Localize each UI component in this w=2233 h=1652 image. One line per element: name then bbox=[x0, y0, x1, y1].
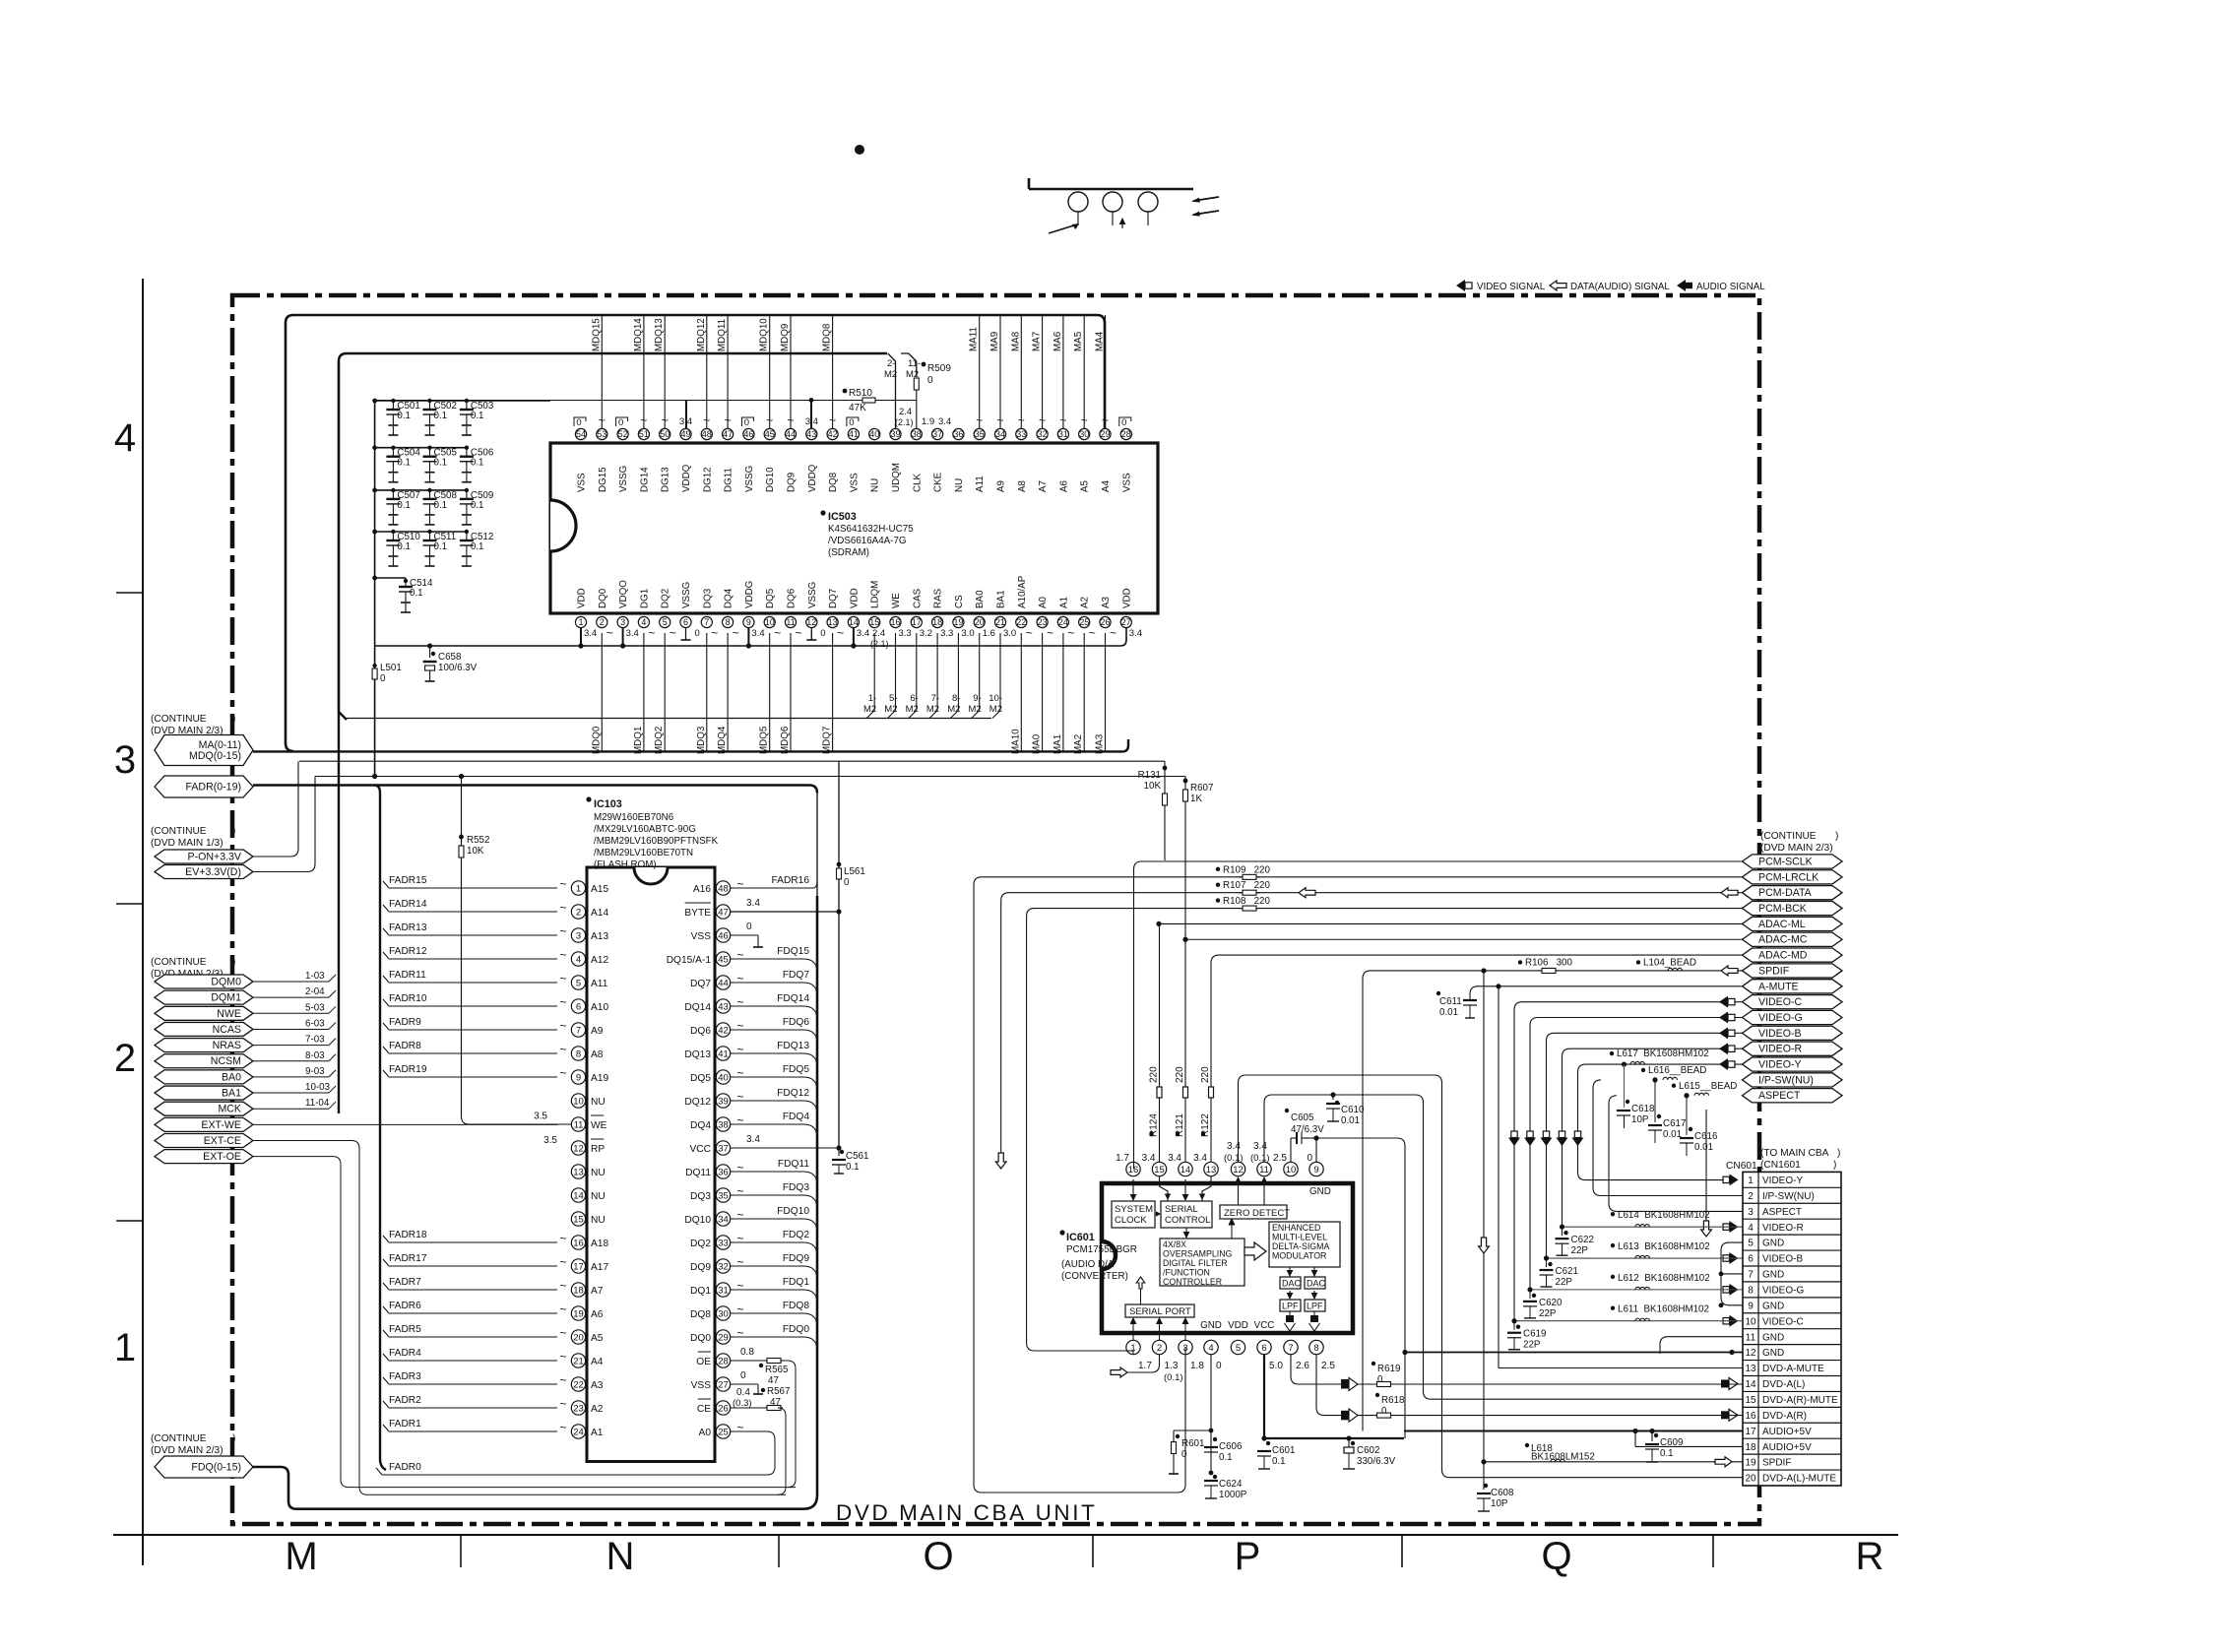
svg-text:MDQ0: MDQ0 bbox=[591, 726, 602, 754]
svg-text:4: 4 bbox=[1208, 1343, 1213, 1354]
svg-text:6: 6 bbox=[576, 1001, 581, 1012]
svg-text:3.4: 3.4 bbox=[584, 628, 597, 639]
svg-text:GND: GND bbox=[1762, 1270, 1784, 1281]
svg-text:IC601: IC601 bbox=[1066, 1232, 1095, 1243]
svg-text:4: 4 bbox=[576, 954, 581, 965]
svg-text:8: 8 bbox=[1313, 1343, 1318, 1354]
svg-text:39: 39 bbox=[718, 1096, 729, 1107]
svg-text:2.4: 2.4 bbox=[899, 407, 912, 417]
svg-text:0.1: 0.1 bbox=[471, 541, 484, 552]
svg-text:45: 45 bbox=[765, 429, 775, 439]
svg-text:43: 43 bbox=[806, 429, 816, 439]
svg-text:18: 18 bbox=[932, 617, 942, 627]
svg-text:GND: GND bbox=[1762, 1301, 1784, 1311]
svg-text:7-03: 7-03 bbox=[305, 1035, 325, 1046]
svg-text:DQ5: DQ5 bbox=[690, 1073, 711, 1084]
svg-text:DQ9: DQ9 bbox=[787, 473, 797, 492]
svg-text:2-: 2- bbox=[887, 358, 895, 369]
svg-text:(TO MAIN CBA: (TO MAIN CBA bbox=[1760, 1148, 1829, 1159]
svg-text:MA2: MA2 bbox=[1073, 734, 1084, 754]
svg-text:IC103: IC103 bbox=[594, 798, 622, 810]
svg-text:): ) bbox=[1833, 1160, 1836, 1171]
svg-text:~: ~ bbox=[1047, 626, 1053, 640]
svg-text:VSSG: VSSG bbox=[618, 466, 629, 492]
svg-text:22P: 22P bbox=[1539, 1308, 1557, 1319]
svg-text:A16: A16 bbox=[693, 884, 711, 895]
svg-text:3.5: 3.5 bbox=[534, 1111, 547, 1121]
svg-text:DG10: DG10 bbox=[765, 467, 776, 492]
svg-text:OVERSAMPLING: OVERSAMPLING bbox=[1163, 1249, 1233, 1259]
svg-text:0.01: 0.01 bbox=[1663, 1129, 1682, 1140]
svg-text:VSS: VSS bbox=[1121, 473, 1132, 492]
svg-text:AUDIO+5V: AUDIO+5V bbox=[1762, 1427, 1812, 1437]
svg-text:~: ~ bbox=[736, 1161, 743, 1175]
svg-text:VDD: VDD bbox=[1121, 588, 1132, 608]
svg-text:A3: A3 bbox=[1101, 596, 1112, 608]
svg-text:FADR6: FADR6 bbox=[389, 1301, 421, 1311]
svg-text:30: 30 bbox=[1079, 429, 1089, 439]
svg-text:VCC: VCC bbox=[689, 1144, 711, 1155]
svg-text:DQ6: DQ6 bbox=[690, 1026, 711, 1037]
svg-text:~: ~ bbox=[559, 901, 566, 915]
svg-text:VIDEO-G: VIDEO-G bbox=[1758, 1012, 1803, 1024]
svg-text:ADAC-MC: ADAC-MC bbox=[1758, 934, 1808, 946]
svg-text:MA6: MA6 bbox=[1053, 331, 1063, 351]
svg-text:FADR7: FADR7 bbox=[389, 1277, 421, 1288]
svg-text:VDD: VDD bbox=[849, 588, 860, 608]
svg-text:0.1: 0.1 bbox=[434, 500, 448, 511]
svg-text:~: ~ bbox=[559, 1232, 566, 1245]
svg-text:16: 16 bbox=[573, 1238, 584, 1248]
svg-text:18: 18 bbox=[1745, 1442, 1756, 1453]
svg-text:FADR3: FADR3 bbox=[389, 1371, 421, 1382]
svg-text:MDQ6: MDQ6 bbox=[780, 726, 791, 754]
svg-text:A2: A2 bbox=[591, 1404, 604, 1415]
svg-text:4: 4 bbox=[1748, 1223, 1754, 1234]
svg-text:FDQ(0-15): FDQ(0-15) bbox=[191, 1461, 241, 1473]
svg-text:4: 4 bbox=[114, 416, 136, 460]
svg-text:22P: 22P bbox=[1571, 1245, 1589, 1256]
svg-text:MA1: MA1 bbox=[1053, 734, 1063, 754]
svg-text:(SDRAM): (SDRAM) bbox=[828, 547, 869, 558]
svg-text:DQ12: DQ12 bbox=[684, 1097, 711, 1108]
svg-text:C620: C620 bbox=[1539, 1298, 1563, 1308]
svg-text:DQ14: DQ14 bbox=[684, 1002, 711, 1013]
svg-text:A10/AP: A10/AP bbox=[1017, 575, 1028, 608]
svg-text:DVD MAIN CBA UNIT: DVD MAIN CBA UNIT bbox=[836, 1500, 1097, 1525]
svg-text:FADR5: FADR5 bbox=[389, 1324, 421, 1335]
svg-text:DQ15/A-1: DQ15/A-1 bbox=[667, 955, 712, 966]
svg-text:(AUDIO D/A: (AUDIO D/A bbox=[1061, 1259, 1115, 1270]
svg-text:CLK: CLK bbox=[912, 473, 923, 492]
svg-text:R: R bbox=[1856, 1535, 1884, 1578]
svg-text:16: 16 bbox=[1128, 1165, 1139, 1175]
svg-text:EXT-CE: EXT-CE bbox=[204, 1135, 241, 1147]
svg-text:DQ0: DQ0 bbox=[690, 1333, 711, 1344]
svg-text:PCM-BCK: PCM-BCK bbox=[1758, 903, 1807, 915]
svg-text:11: 11 bbox=[786, 617, 795, 627]
svg-text:VIDEO SIGNAL: VIDEO SIGNAL bbox=[1477, 282, 1546, 292]
svg-text:50: 50 bbox=[660, 429, 670, 439]
svg-text:37: 37 bbox=[718, 1143, 729, 1154]
svg-text:21: 21 bbox=[995, 617, 1005, 627]
svg-text:A8: A8 bbox=[1017, 479, 1028, 492]
svg-text:~: ~ bbox=[559, 1255, 566, 1269]
svg-text:ADAC-MD: ADAC-MD bbox=[1758, 950, 1808, 962]
svg-text:(CN1601: (CN1601 bbox=[1760, 1160, 1801, 1171]
svg-text:29: 29 bbox=[718, 1332, 729, 1343]
svg-text:C606: C606 bbox=[1219, 1441, 1243, 1452]
svg-text:(CONTINUE: (CONTINUE bbox=[151, 1433, 207, 1444]
svg-text:9: 9 bbox=[1748, 1301, 1754, 1311]
svg-text:5-: 5- bbox=[889, 693, 897, 704]
svg-text:VSS: VSS bbox=[691, 931, 712, 942]
svg-text:~: ~ bbox=[736, 972, 743, 985]
svg-text:DQM1: DQM1 bbox=[211, 992, 241, 1004]
svg-text:36: 36 bbox=[718, 1167, 729, 1177]
svg-text:R567: R567 bbox=[767, 1386, 790, 1397]
svg-text:3.4: 3.4 bbox=[746, 1134, 760, 1145]
svg-text:R107 220: R107 220 bbox=[1223, 880, 1270, 891]
svg-text:46: 46 bbox=[743, 429, 753, 439]
svg-text:CAS: CAS bbox=[912, 588, 923, 608]
svg-text:VSSG: VSSG bbox=[744, 466, 755, 492]
svg-text:9: 9 bbox=[576, 1072, 581, 1083]
svg-text:0.1: 0.1 bbox=[471, 500, 484, 511]
svg-text:0.01: 0.01 bbox=[1694, 1142, 1713, 1153]
svg-text:12: 12 bbox=[806, 617, 816, 627]
svg-text:FADR(0-19): FADR(0-19) bbox=[185, 781, 241, 793]
svg-text:GND: GND bbox=[1762, 1348, 1784, 1359]
svg-text:EXT-OE: EXT-OE bbox=[203, 1151, 241, 1163]
svg-text:0: 0 bbox=[844, 877, 850, 888]
svg-text:FDQ10: FDQ10 bbox=[777, 1206, 809, 1217]
svg-text:/MX29LV160ABTC-90G: /MX29LV160ABTC-90G bbox=[594, 824, 696, 835]
svg-text:M2: M2 bbox=[884, 369, 897, 380]
svg-text:/FUNCTION: /FUNCTION bbox=[1163, 1268, 1210, 1278]
svg-text:M2: M2 bbox=[989, 704, 1002, 715]
svg-text:10-: 10- bbox=[989, 693, 1002, 704]
svg-text:0: 0 bbox=[849, 417, 854, 428]
svg-text:L613 BK1608HM102: L613 BK1608HM102 bbox=[1618, 1241, 1710, 1252]
svg-text:NU: NU bbox=[591, 1191, 606, 1202]
svg-text:6: 6 bbox=[1261, 1343, 1266, 1354]
svg-text:2: 2 bbox=[114, 1037, 136, 1080]
svg-text:10: 10 bbox=[1286, 1165, 1297, 1175]
svg-text:VIDEO-B: VIDEO-B bbox=[1762, 1254, 1803, 1265]
svg-text:NCAS: NCAS bbox=[213, 1024, 241, 1036]
svg-text:1: 1 bbox=[1748, 1175, 1754, 1186]
svg-text:NU: NU bbox=[870, 478, 881, 492]
svg-text:SYSTEM: SYSTEM bbox=[1115, 1204, 1153, 1215]
svg-text:BA0: BA0 bbox=[975, 590, 986, 608]
svg-text:10P: 10P bbox=[1491, 1498, 1508, 1509]
svg-text:R618: R618 bbox=[1381, 1395, 1405, 1406]
svg-text:ADAC-ML: ADAC-ML bbox=[1758, 919, 1806, 930]
svg-text:VDDQ: VDDQ bbox=[681, 464, 692, 492]
svg-text:FDQ9: FDQ9 bbox=[783, 1253, 810, 1264]
svg-text:FADR9: FADR9 bbox=[389, 1017, 421, 1028]
svg-text:27: 27 bbox=[1121, 617, 1131, 627]
svg-text:0: 0 bbox=[380, 673, 386, 684]
svg-text:(CONVERTER): (CONVERTER) bbox=[1061, 1271, 1128, 1282]
svg-text:220: 220 bbox=[1200, 1066, 1211, 1083]
svg-text:EV+3.3V(D): EV+3.3V(D) bbox=[185, 866, 241, 878]
svg-text:M2: M2 bbox=[863, 704, 876, 715]
svg-text:3: 3 bbox=[620, 617, 625, 627]
svg-text:DQ10: DQ10 bbox=[684, 1215, 711, 1226]
svg-text:): ) bbox=[1837, 1148, 1840, 1159]
svg-text:5: 5 bbox=[1236, 1343, 1241, 1354]
svg-text:A1: A1 bbox=[591, 1428, 604, 1438]
svg-text:3.3: 3.3 bbox=[899, 628, 912, 639]
svg-text:10K: 10K bbox=[1144, 781, 1162, 792]
svg-text:SERIAL PORT: SERIAL PORT bbox=[1129, 1306, 1191, 1317]
svg-text:DVD-A(R): DVD-A(R) bbox=[1762, 1411, 1807, 1422]
svg-text:24: 24 bbox=[573, 1427, 584, 1437]
svg-text:FDQ12: FDQ12 bbox=[777, 1088, 809, 1099]
svg-text:R109 220: R109 220 bbox=[1223, 864, 1270, 875]
svg-text:DELTA-SIGMA: DELTA-SIGMA bbox=[1272, 1241, 1329, 1251]
svg-text:R601: R601 bbox=[1181, 1438, 1204, 1449]
svg-text:GND: GND bbox=[1762, 1332, 1784, 1343]
svg-text:(0.3): (0.3) bbox=[733, 1398, 752, 1409]
svg-text:MA0: MA0 bbox=[1032, 733, 1043, 754]
svg-text:52: 52 bbox=[618, 429, 628, 439]
svg-text:C611: C611 bbox=[1439, 996, 1462, 1007]
svg-text:FADR1: FADR1 bbox=[389, 1419, 421, 1430]
svg-text:1-: 1- bbox=[868, 693, 876, 704]
svg-text:1: 1 bbox=[578, 617, 583, 627]
svg-text:15: 15 bbox=[1745, 1395, 1756, 1406]
svg-text:1.8: 1.8 bbox=[1190, 1361, 1204, 1371]
svg-text:~: ~ bbox=[736, 1043, 743, 1056]
svg-text:FDQ13: FDQ13 bbox=[777, 1041, 809, 1051]
svg-text:R131: R131 bbox=[1138, 770, 1161, 781]
svg-text:A12: A12 bbox=[591, 955, 608, 966]
svg-text:I/P-SW(NU): I/P-SW(NU) bbox=[1758, 1074, 1814, 1086]
svg-text:8: 8 bbox=[1748, 1285, 1754, 1296]
svg-text:FDQ4: FDQ4 bbox=[783, 1112, 810, 1122]
svg-text:L561: L561 bbox=[844, 866, 865, 877]
svg-text:A14: A14 bbox=[591, 908, 608, 919]
svg-text:VIDEO-C: VIDEO-C bbox=[1758, 996, 1802, 1008]
svg-text:NU: NU bbox=[591, 1097, 606, 1108]
svg-text:220: 220 bbox=[1175, 1066, 1185, 1083]
svg-text:~: ~ bbox=[736, 1019, 743, 1033]
svg-text:DQ3: DQ3 bbox=[702, 588, 713, 608]
svg-text:FDQ3: FDQ3 bbox=[783, 1182, 810, 1193]
svg-text:5: 5 bbox=[576, 978, 581, 988]
svg-text:MA5: MA5 bbox=[1073, 331, 1084, 351]
svg-text:C617: C617 bbox=[1663, 1118, 1686, 1129]
svg-text:P: P bbox=[1235, 1535, 1261, 1578]
svg-text:3.4: 3.4 bbox=[1227, 1141, 1241, 1152]
svg-text:(2.1): (2.1) bbox=[870, 639, 889, 649]
svg-text:A5: A5 bbox=[1080, 479, 1091, 492]
svg-text:L614 BK1608HM102: L614 BK1608HM102 bbox=[1618, 1210, 1710, 1221]
svg-text:A9: A9 bbox=[996, 480, 1007, 492]
svg-text:A8: A8 bbox=[591, 1049, 604, 1060]
svg-text:DVD-A(L): DVD-A(L) bbox=[1762, 1379, 1805, 1390]
svg-text:VSS: VSS bbox=[577, 473, 588, 492]
svg-text:DQ4: DQ4 bbox=[724, 588, 734, 608]
svg-text:DQ8: DQ8 bbox=[828, 472, 839, 492]
svg-text:2: 2 bbox=[1157, 1343, 1162, 1354]
svg-text:MDQ1: MDQ1 bbox=[633, 727, 644, 754]
svg-text:0.1: 0.1 bbox=[434, 541, 448, 552]
svg-text:36: 36 bbox=[953, 429, 963, 439]
svg-text:A5: A5 bbox=[591, 1333, 604, 1344]
svg-text:0: 0 bbox=[746, 921, 752, 932]
svg-text:41: 41 bbox=[718, 1048, 729, 1059]
svg-text:2: 2 bbox=[576, 907, 581, 918]
svg-text:R108 220: R108 220 bbox=[1223, 896, 1270, 907]
svg-text:10: 10 bbox=[1745, 1316, 1756, 1327]
svg-text:R122: R122 bbox=[1200, 1113, 1211, 1137]
svg-text:1.6: 1.6 bbox=[983, 628, 995, 639]
svg-text:LPF: LPF bbox=[1282, 1302, 1299, 1311]
svg-text:FADR13: FADR13 bbox=[389, 922, 427, 933]
svg-text:(0.1): (0.1) bbox=[1250, 1153, 1270, 1164]
svg-text:L615__BEAD: L615__BEAD bbox=[1679, 1081, 1737, 1092]
svg-text:(CONTINUE: (CONTINUE bbox=[151, 714, 207, 725]
svg-text:22P: 22P bbox=[1523, 1340, 1541, 1351]
svg-text:5: 5 bbox=[663, 617, 668, 627]
svg-text:MDQ14: MDQ14 bbox=[633, 318, 644, 351]
svg-text:R509: R509 bbox=[927, 363, 951, 374]
svg-text:A7: A7 bbox=[1038, 480, 1049, 492]
svg-text:35: 35 bbox=[975, 429, 985, 439]
svg-text:PCM-DATA: PCM-DATA bbox=[1758, 887, 1813, 899]
svg-text:BA1: BA1 bbox=[996, 590, 1007, 608]
svg-text:48: 48 bbox=[718, 883, 729, 894]
svg-text:C621: C621 bbox=[1556, 1266, 1578, 1277]
svg-text:C608: C608 bbox=[1491, 1488, 1514, 1498]
svg-text:3.5: 3.5 bbox=[543, 1135, 557, 1146]
svg-text:DQ7: DQ7 bbox=[690, 979, 711, 989]
svg-text:1.3: 1.3 bbox=[1165, 1361, 1179, 1371]
svg-text:1: 1 bbox=[576, 883, 581, 894]
svg-text:C602: C602 bbox=[1357, 1445, 1379, 1456]
svg-text:(CONTINUE: (CONTINUE bbox=[1760, 831, 1817, 842]
svg-text:5-03: 5-03 bbox=[305, 1002, 325, 1013]
svg-text:2.5: 2.5 bbox=[1321, 1361, 1335, 1371]
svg-text:(0.1): (0.1) bbox=[1164, 1372, 1183, 1383]
svg-text:MODULATOR: MODULATOR bbox=[1272, 1251, 1326, 1261]
svg-text:R552: R552 bbox=[467, 835, 489, 846]
svg-text:MULTI-LEVEL: MULTI-LEVEL bbox=[1272, 1233, 1327, 1242]
svg-text:19: 19 bbox=[573, 1308, 584, 1319]
svg-text:FDQ5: FDQ5 bbox=[783, 1064, 810, 1075]
svg-text:C624: C624 bbox=[1219, 1479, 1243, 1490]
svg-text:3: 3 bbox=[1748, 1207, 1754, 1218]
svg-text:VDDQ: VDDQ bbox=[807, 464, 818, 492]
svg-text:FADR10: FADR10 bbox=[389, 993, 427, 1004]
svg-text:11: 11 bbox=[1259, 1165, 1269, 1175]
svg-text:23: 23 bbox=[573, 1403, 584, 1414]
svg-text:): ) bbox=[232, 957, 235, 968]
svg-text:11: 11 bbox=[1746, 1332, 1756, 1343]
svg-text:32: 32 bbox=[718, 1261, 729, 1272]
svg-text:45: 45 bbox=[718, 954, 729, 965]
svg-text:14: 14 bbox=[1180, 1165, 1191, 1175]
svg-text:~: ~ bbox=[1026, 626, 1033, 640]
svg-text:7: 7 bbox=[704, 617, 709, 627]
svg-text:1000P: 1000P bbox=[1219, 1490, 1247, 1500]
svg-text:3.4: 3.4 bbox=[1168, 1153, 1181, 1164]
svg-text:FADR0: FADR0 bbox=[389, 1462, 421, 1473]
svg-text:35: 35 bbox=[718, 1190, 729, 1201]
svg-text:DQM0: DQM0 bbox=[211, 976, 241, 987]
svg-text:FDQ0: FDQ0 bbox=[783, 1324, 810, 1335]
svg-text:A1: A1 bbox=[1058, 597, 1069, 608]
svg-text:28: 28 bbox=[718, 1356, 729, 1366]
svg-text:MDQ8: MDQ8 bbox=[822, 323, 833, 351]
svg-text:EXT-WE: EXT-WE bbox=[201, 1119, 241, 1131]
svg-text:VDDG: VDDG bbox=[744, 581, 755, 608]
svg-text:VIDEO-B: VIDEO-B bbox=[1758, 1028, 1802, 1040]
svg-text:L616__BEAD: L616__BEAD bbox=[1648, 1065, 1706, 1076]
svg-text:A15: A15 bbox=[591, 884, 608, 895]
svg-text:~: ~ bbox=[736, 995, 743, 1009]
svg-text:VDQO: VDQO bbox=[618, 580, 629, 608]
svg-text:25: 25 bbox=[718, 1427, 729, 1437]
svg-text:FDQ15: FDQ15 bbox=[777, 946, 809, 957]
svg-text:A11: A11 bbox=[975, 476, 986, 492]
svg-text:Q: Q bbox=[1541, 1535, 1571, 1578]
svg-text:FDQ8: FDQ8 bbox=[783, 1301, 810, 1311]
svg-text:40: 40 bbox=[718, 1072, 729, 1083]
svg-text:0.1: 0.1 bbox=[410, 588, 423, 599]
svg-text:19: 19 bbox=[953, 617, 963, 627]
svg-text:8: 8 bbox=[726, 617, 731, 627]
svg-text:A18: A18 bbox=[591, 1239, 608, 1249]
svg-text:49: 49 bbox=[680, 429, 690, 439]
svg-text:3.3: 3.3 bbox=[940, 628, 953, 639]
svg-text:40: 40 bbox=[869, 429, 879, 439]
svg-text:3.4: 3.4 bbox=[1253, 1141, 1267, 1152]
svg-text:10-03: 10-03 bbox=[305, 1082, 331, 1093]
svg-text:UDQM: UDQM bbox=[891, 463, 902, 492]
svg-text:3.0: 3.0 bbox=[1003, 628, 1016, 639]
svg-text:NU: NU bbox=[591, 1215, 606, 1226]
svg-text:~: ~ bbox=[1110, 626, 1116, 640]
svg-text:3: 3 bbox=[1182, 1343, 1187, 1354]
svg-text:47: 47 bbox=[768, 1375, 779, 1386]
svg-text:9-: 9- bbox=[973, 693, 981, 704]
svg-text:M2: M2 bbox=[947, 704, 960, 715]
svg-text:7: 7 bbox=[576, 1025, 581, 1036]
svg-text:15: 15 bbox=[573, 1214, 584, 1225]
svg-text:DQ1: DQ1 bbox=[690, 1286, 711, 1297]
svg-text:DQ0: DQ0 bbox=[598, 588, 608, 608]
svg-text:DAC: DAC bbox=[1307, 1279, 1326, 1289]
svg-text:30: 30 bbox=[718, 1308, 729, 1319]
svg-text:47: 47 bbox=[718, 907, 729, 918]
svg-text:5.0: 5.0 bbox=[1269, 1361, 1283, 1371]
svg-text:ENHANCED: ENHANCED bbox=[1272, 1223, 1320, 1233]
svg-text:DQ3: DQ3 bbox=[690, 1191, 711, 1202]
svg-text:~: ~ bbox=[736, 1303, 743, 1316]
svg-text:47K: 47K bbox=[849, 403, 866, 413]
svg-text:C605: C605 bbox=[1291, 1112, 1314, 1123]
svg-text:VDD: VDD bbox=[577, 588, 588, 608]
svg-text:~: ~ bbox=[559, 1397, 566, 1411]
svg-text:(DVD MAIN 1/3): (DVD MAIN 1/3) bbox=[151, 838, 223, 849]
svg-text:0.1: 0.1 bbox=[434, 458, 448, 469]
svg-text:15: 15 bbox=[869, 617, 879, 627]
